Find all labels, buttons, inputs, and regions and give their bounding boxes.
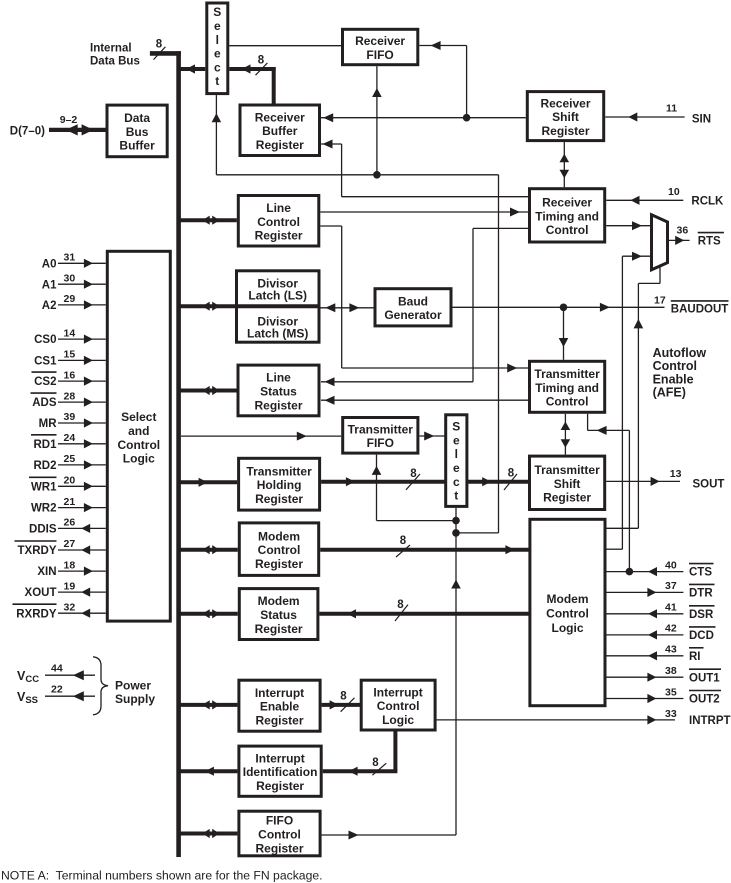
svg-text:Control: Control: [117, 438, 160, 452]
svg-text:Transmitter: Transmitter: [534, 463, 600, 477]
svg-text:13: 13: [670, 468, 682, 480]
svg-text:8: 8: [156, 39, 163, 51]
svg-text:Bus: Bus: [126, 125, 149, 139]
wire bus to Interrupt Identification Register: [180, 767, 237, 776]
pin RD2 25: [33, 453, 105, 472]
svg-text:Buffer: Buffer: [119, 139, 155, 153]
svg-text:29: 29: [64, 293, 76, 305]
label 8 on modem control link: [396, 535, 410, 557]
svg-text:RXRDY: RXRDY: [16, 608, 57, 620]
wire Baud Generator BAUDOUT: [453, 303, 665, 312]
svg-text:39: 39: [64, 411, 76, 423]
wire Receiver Timing and Control to RTS mux: [606, 221, 650, 230]
wire autoflow enable Modem Control Logic to mux: [607, 267, 661, 528]
label Autoflow Control Enable (AFE): [653, 346, 707, 400]
wire FIFO select net (Select top and down to transmitter select): [212, 95, 499, 533]
svg-text:Interrupt: Interrupt: [255, 686, 304, 700]
svg-text:Register: Register: [255, 841, 303, 855]
pin XOUT 19: [25, 580, 106, 599]
svg-text:t: t: [215, 74, 219, 88]
wire FIFO Control Register to transmitter Select: [322, 508, 461, 840]
svg-text:Register: Register: [255, 714, 303, 728]
svg-text:Register: Register: [256, 779, 304, 793]
label 8 between select and TSR: [504, 468, 517, 491]
svg-text:S: S: [213, 5, 221, 19]
pin MR 39: [39, 411, 106, 430]
wire Transmitter FIFO to Select: [419, 432, 445, 441]
svg-text:Line: Line: [266, 201, 291, 215]
svg-text:9–2: 9–2: [60, 114, 78, 126]
pin D(7-0) 9-2: [10, 114, 106, 137]
svg-text:20: 20: [64, 475, 76, 487]
svg-text:19: 19: [64, 580, 76, 592]
svg-text:24: 24: [64, 432, 76, 444]
svg-text:l: l: [455, 447, 458, 461]
wire Interrupt Control Logic to Interrupt Identification Register: [323, 731, 398, 776]
svg-text:43: 43: [665, 644, 677, 656]
svg-text:Timing and: Timing and: [535, 381, 599, 395]
pin WR1 20: [29, 475, 106, 494]
pin BAUDOUT 17: [654, 295, 729, 316]
label 8 on interrupt identification link: [372, 757, 386, 775]
svg-text:44: 44: [51, 662, 63, 674]
svg-text:Interrupt: Interrupt: [255, 751, 304, 765]
svg-text:35: 35: [665, 686, 677, 698]
svg-text:CS0: CS0: [34, 334, 56, 346]
wire Receiver FIFO bottom to FIFO select net: [372, 66, 382, 175]
svg-text:ADS: ADS: [32, 397, 57, 409]
wire Transmitter Timing and Control to Transmitter Shift Register: [561, 414, 571, 455]
block Modem Control Register: [239, 523, 318, 576]
svg-text:Generator: Generator: [384, 308, 442, 322]
svg-text:t: t: [454, 489, 458, 503]
wire Transmitter Holding Register to Select: [321, 477, 446, 486]
svg-text:Buffer: Buffer: [262, 124, 298, 138]
block Select (transmitter path selector): [446, 415, 467, 507]
svg-text:30: 30: [64, 272, 76, 284]
svg-text:Control: Control: [653, 359, 697, 373]
svg-text:e: e: [453, 433, 460, 447]
wire Interrupt Enable Register to Interrupt Control Logic: [322, 700, 362, 709]
block Interrupt Enable Register: [239, 680, 320, 731]
wire Transmitter FIFO to FIFO select net: [372, 455, 456, 521]
wire bus to Interrupt Enable Register: [180, 700, 237, 709]
svg-text:CTS: CTS: [689, 567, 712, 579]
svg-text:Register: Register: [256, 138, 304, 152]
wire internal data bus (vertical trunk): [176, 51, 181, 857]
svg-text:WR2: WR2: [31, 503, 57, 515]
block Line Status Register: [238, 365, 319, 416]
block Interrupt Control Logic: [361, 680, 435, 730]
junction transmitter select net upper: [452, 517, 460, 525]
svg-text:MR: MR: [39, 418, 58, 430]
label 8 on modem status link: [395, 599, 408, 621]
svg-text:22: 22: [51, 683, 63, 695]
svg-text:e: e: [214, 47, 221, 61]
label Internal Data Bus: [90, 43, 140, 68]
label 8 on receiver buffer bus: [256, 55, 268, 75]
svg-text:Transmitter: Transmitter: [348, 422, 414, 436]
svg-text:c: c: [214, 60, 221, 74]
block Data Bus Buffer: [107, 105, 167, 157]
power supply brace: [93, 657, 108, 715]
svg-text:DSR: DSR: [689, 609, 714, 621]
svg-text:Modem: Modem: [258, 594, 300, 608]
svg-text:Enable: Enable: [653, 372, 694, 386]
svg-text:21: 21: [64, 496, 76, 508]
note A: [1, 869, 323, 883]
svg-text:8: 8: [258, 55, 265, 67]
svg-text:BAUDOUT: BAUDOUT: [671, 303, 729, 315]
svg-text:Register: Register: [543, 491, 591, 505]
svg-text:Autoflow: Autoflow: [653, 346, 707, 360]
wire Receiver Timing and Control to Receiver Buffer Register: [321, 140, 530, 197]
svg-text:Receiver: Receiver: [540, 96, 590, 110]
pin ADS 28: [31, 390, 106, 409]
svg-text:Logic: Logic: [123, 452, 155, 466]
svg-text:Receiver: Receiver: [355, 34, 405, 48]
svg-text:Control: Control: [546, 607, 589, 621]
svg-text:Data Bus: Data Bus: [90, 56, 140, 68]
svg-text:Control: Control: [377, 699, 420, 713]
svg-text:OUT2: OUT2: [689, 694, 720, 706]
svg-text:FIFO: FIFO: [366, 48, 393, 62]
svg-text:Register: Register: [255, 622, 303, 636]
svg-text:Power: Power: [115, 678, 151, 692]
svg-text:Select: Select: [121, 410, 156, 424]
pin CS0 14: [34, 327, 106, 346]
svg-text:SOUT: SOUT: [693, 479, 725, 491]
pin A0 31: [42, 252, 106, 271]
block Receiver Buffer Register: [240, 105, 320, 156]
svg-text:Latch (MS): Latch (MS): [247, 327, 308, 341]
svg-text:RI: RI: [689, 651, 701, 663]
wire bus to FIFO Control Register: [180, 829, 237, 838]
svg-text:38: 38: [665, 665, 677, 677]
svg-text:NOTE A: Terminal numbers show: NOTE A: Terminal numbers shown are for t…: [1, 869, 323, 883]
svg-text:Register: Register: [541, 124, 589, 138]
wire Receiver Timing and Control to Line Status Register: [321, 228, 530, 386]
svg-text:Identification: Identification: [243, 765, 318, 779]
svg-text:Control: Control: [546, 395, 589, 409]
svg-text:CS2: CS2: [34, 376, 56, 388]
block RTS output mux: [652, 215, 668, 270]
svg-text:26: 26: [64, 517, 76, 529]
svg-text:36: 36: [677, 224, 689, 236]
wire Divisor Latch to Baud Generator: [321, 303, 374, 312]
svg-text:Internal: Internal: [90, 43, 132, 55]
svg-text:XOUT: XOUT: [25, 587, 57, 599]
block Select and Control Logic: [107, 251, 170, 621]
label 8 on internal data bus: [154, 39, 166, 60]
svg-text:15: 15: [64, 349, 76, 361]
block Receiver FIFO: [343, 29, 418, 64]
svg-text:DCD: DCD: [689, 630, 714, 642]
svg-text:Status: Status: [260, 385, 297, 399]
svg-text:25: 25: [64, 453, 76, 465]
pin CS1 15: [34, 349, 106, 368]
wire bus to Select (top): [180, 64, 205, 73]
svg-text:INTRPT: INTRPT: [689, 715, 731, 727]
svg-text:D(7–0): D(7–0): [10, 125, 45, 137]
svg-text:Receiver: Receiver: [255, 111, 305, 125]
wire Line Control Register to Transmitter Timing and Control: [320, 226, 529, 373]
block Baud Generator: [375, 289, 451, 326]
wire bus to Modem Control Register: [180, 545, 238, 554]
svg-text:(AFE): (AFE): [653, 386, 686, 400]
svg-text:Transmitter: Transmitter: [534, 367, 600, 381]
pin WR2 21: [31, 496, 106, 515]
svg-text:l: l: [216, 33, 219, 47]
svg-text:Register: Register: [254, 398, 302, 412]
svg-text:16: 16: [64, 369, 76, 381]
svg-text:27: 27: [64, 538, 76, 550]
svg-text:RD2: RD2: [33, 460, 56, 472]
svg-text:A1: A1: [42, 279, 57, 291]
svg-text:XIN: XIN: [37, 566, 56, 578]
pin INTRPT 33: [437, 708, 731, 727]
pin VSS 22: [17, 683, 95, 706]
svg-text:and: and: [128, 424, 149, 438]
wire Modem Control Logic to RTS mux: [607, 252, 651, 550]
wire bus to Modem Status Register: [180, 609, 238, 618]
junction on receiver data line: [463, 114, 471, 122]
pin CS2 16: [32, 369, 106, 388]
svg-text:Data: Data: [124, 111, 150, 125]
svg-text:8: 8: [397, 599, 404, 611]
svg-text:DDIS: DDIS: [29, 524, 57, 536]
wire Receiver Shift Register to Receiver Buffer Register: [321, 113, 526, 122]
svg-text:Transmitter: Transmitter: [246, 464, 312, 478]
pin RI 43: [607, 644, 704, 663]
pin RTS 36: [669, 224, 724, 247]
pin A2 29: [42, 293, 106, 312]
pin DCD 42: [607, 623, 716, 642]
svg-text:Register: Register: [255, 229, 303, 243]
label 8 on interrupt enable link: [340, 691, 354, 712]
svg-text:8: 8: [400, 535, 407, 547]
pin SOUT 13: [606, 468, 724, 490]
svg-text:Latch (LS): Latch (LS): [248, 289, 307, 303]
svg-text:40: 40: [665, 559, 677, 571]
pin DDIS 26: [29, 517, 106, 536]
block Divisor Latch (LS)/(MS): [237, 271, 320, 342]
block Select (receiver path selector): [207, 3, 228, 94]
svg-text:Modem: Modem: [547, 592, 589, 606]
pin A1 30: [42, 272, 106, 291]
svg-text:A0: A0: [42, 258, 57, 270]
block Receiver Shift Register: [527, 92, 603, 141]
wire Modem Control Register to Modem Control Logic: [320, 545, 530, 554]
block FIFO Control Register: [239, 811, 320, 856]
svg-text:OUT1: OUT1: [689, 672, 720, 684]
block Modem Control Logic: [530, 519, 605, 705]
label 8 between THR and select: [406, 468, 420, 490]
wire Transmitter Timing and Control to Line Status Register: [321, 396, 530, 405]
svg-text:RCLK: RCLK: [691, 196, 724, 208]
svg-text:Logic: Logic: [552, 621, 584, 635]
svg-text:c: c: [453, 475, 460, 489]
svg-text:Baud: Baud: [398, 294, 428, 308]
svg-text:RD1: RD1: [33, 439, 57, 451]
svg-text:Control: Control: [546, 223, 589, 237]
label Power Supply: [115, 678, 155, 706]
svg-text:Modem: Modem: [258, 529, 300, 543]
junction FIFO select net at receiver FIFO drop: [373, 171, 381, 179]
svg-text:WR1: WR1: [31, 481, 57, 493]
wire CTS net to Transmitter Timing and Control: [588, 414, 630, 572]
block Transmitter FIFO: [343, 418, 418, 454]
svg-text:Receiver: Receiver: [542, 196, 592, 210]
pin SIN 11: [605, 103, 711, 126]
svg-text:17: 17: [654, 295, 666, 307]
block Transmitter Shift Register: [530, 456, 605, 509]
pin TXRDY 27: [15, 538, 106, 557]
pin OUT1 38: [607, 665, 722, 684]
pin DSR 41: [607, 602, 715, 621]
svg-text:FIFO: FIFO: [266, 814, 293, 828]
wire Receiver Shift Register to Receiver FIFO: [419, 41, 466, 118]
svg-text:FIFO: FIFO: [367, 436, 394, 450]
wire internal data bus top stub: [150, 51, 181, 56]
svg-text:11: 11: [666, 103, 677, 115]
pin OUT2 35: [607, 686, 722, 705]
svg-text:Timing and: Timing and: [535, 209, 599, 223]
pin RXRDY 32: [13, 601, 106, 620]
svg-text:e: e: [453, 461, 460, 475]
junction CTS autoflow tap: [626, 568, 634, 576]
wire Receiver Shift Register to Receiver Timing and Control: [560, 142, 570, 187]
wire bus to Divisor Latch: [180, 302, 235, 311]
svg-text:Control: Control: [258, 828, 301, 842]
svg-text:S: S: [452, 420, 460, 434]
svg-text:A2: A2: [42, 300, 57, 312]
svg-text:42: 42: [665, 623, 677, 635]
svg-text:DTR: DTR: [689, 588, 713, 600]
wire bus to Line Control Register: [180, 216, 237, 225]
svg-text:Interrupt: Interrupt: [373, 685, 422, 699]
wire Line Control Register to Receiver Timing and Control: [320, 208, 529, 217]
wire Select to Receiver FIFO: [229, 45, 341, 47]
svg-text:TXRDY: TXRDY: [18, 545, 57, 557]
pin RD1 24: [31, 432, 106, 451]
block Receiver Timing and Control: [530, 189, 605, 242]
svg-text:Control: Control: [258, 543, 301, 557]
wire bus to Transmitter Holding Register: [180, 478, 237, 487]
svg-text:Control: Control: [257, 215, 300, 229]
svg-text:32: 32: [64, 601, 76, 613]
wire Select to Transmitter Shift Register: [467, 477, 530, 486]
pin DTR 37: [607, 580, 715, 599]
svg-text:28: 28: [64, 390, 76, 402]
svg-text:Register: Register: [255, 557, 303, 571]
wire bus to Transmitter FIFO: [181, 432, 341, 441]
block Interrupt Identification Register: [239, 746, 321, 796]
wire Receiver Buffer Register to Select (top): [229, 64, 275, 103]
svg-text:18: 18: [64, 559, 76, 571]
svg-text:Shift: Shift: [554, 477, 581, 491]
svg-text:41: 41: [665, 602, 677, 614]
svg-text:8: 8: [340, 691, 347, 703]
svg-text:Logic: Logic: [382, 713, 414, 727]
pin XIN 18: [37, 559, 105, 578]
svg-text:14: 14: [64, 327, 76, 339]
svg-text:8: 8: [372, 757, 379, 769]
wire baudout to Transmitter Timing and Control: [559, 307, 569, 360]
svg-text:Line: Line: [266, 371, 291, 385]
svg-text:RTS: RTS: [698, 236, 721, 248]
block Transmitter Timing and Control: [530, 361, 605, 412]
wire Modem Control Logic to Modem Status Register: [319, 609, 530, 618]
junction transmitter select net lower: [452, 529, 460, 537]
svg-text:37: 37: [665, 580, 677, 592]
svg-text:Shift: Shift: [552, 110, 579, 124]
block Line Control Register: [238, 196, 318, 247]
svg-text:CS1: CS1: [34, 356, 57, 368]
pin RCLK 10: [606, 186, 724, 208]
svg-text:Holding: Holding: [257, 478, 302, 492]
pin VCC 44: [17, 662, 95, 685]
svg-text:Status: Status: [260, 608, 297, 622]
pin CTS 40: [607, 559, 714, 578]
svg-text:e: e: [214, 19, 221, 33]
svg-text:10: 10: [668, 186, 680, 198]
svg-text:31: 31: [64, 252, 76, 264]
block Modem Status Register: [239, 589, 318, 640]
svg-text:Enable: Enable: [260, 700, 300, 714]
svg-text:Supply: Supply: [115, 692, 155, 706]
svg-text:Register: Register: [255, 492, 303, 506]
svg-text:SIN: SIN: [692, 114, 711, 126]
svg-text:33: 33: [665, 708, 677, 720]
block Transmitter Holding Register: [239, 458, 320, 510]
wire bus to Line Status Register: [180, 386, 237, 395]
